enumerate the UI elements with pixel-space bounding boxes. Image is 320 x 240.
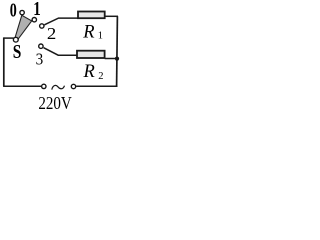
switch contact 0 <box>20 10 24 14</box>
junction node dot <box>115 57 119 61</box>
switch S pivot circle <box>13 37 18 42</box>
resistor R1 body <box>78 12 105 19</box>
switch contact 3 <box>39 44 43 48</box>
wire: left vertical of frame <box>3 37 5 86</box>
AC source right terminal <box>71 84 75 88</box>
svg-text:3: 3 <box>36 50 44 69</box>
wire: right vertical of frame <box>116 16 119 86</box>
resistor R2 body <box>77 51 105 58</box>
switch contact 1 <box>32 18 36 22</box>
switch S wiper wedge <box>15 15 32 40</box>
wire: bottom-right horizontal from AC terminal to right frame <box>76 85 117 87</box>
svg-text:1: 1 <box>98 31 103 42</box>
svg-text:0: 0 <box>10 1 17 22</box>
svg-text:220V: 220V <box>38 93 72 113</box>
switch contact 2 <box>40 24 44 28</box>
AC tilde symbol <box>52 85 65 89</box>
svg-text:R: R <box>83 62 95 82</box>
wire: R1 left lead from contact 2 (diagonal + horizontal) <box>44 18 78 25</box>
wire: top-left horizontal from frame to switch pivot <box>4 37 14 39</box>
svg-text:2: 2 <box>98 71 103 82</box>
wire: R2 left lead from contact 3 (diagonal + horizontal) <box>44 48 78 56</box>
AC source left terminal <box>42 84 46 88</box>
svg-text:1: 1 <box>33 0 41 20</box>
svg-text:R: R <box>82 23 94 43</box>
svg-text:S: S <box>13 42 22 63</box>
wire: R2 right lead to junction <box>105 58 117 60</box>
wire: R1 right lead <box>105 15 118 17</box>
wire: bottom-left horizontal to AC terminal <box>3 85 41 87</box>
svg-text:2: 2 <box>47 24 56 43</box>
